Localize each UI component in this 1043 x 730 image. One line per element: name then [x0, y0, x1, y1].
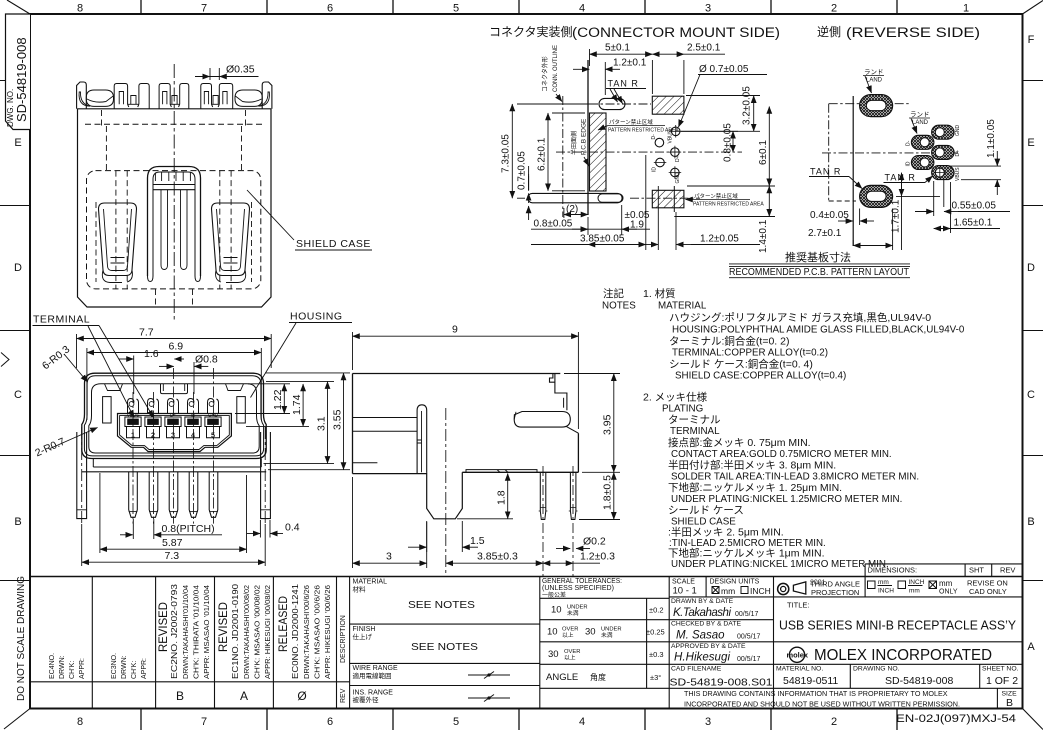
- dim 6±0.1: [687, 107, 775, 187]
- svg-text:6: 6: [327, 3, 333, 15]
- svg-text:(UNLESS SPECIFIED): (UNLESS SPECIFIED): [542, 585, 614, 592]
- dim 1.22 right: [235, 384, 290, 414]
- svg-text:3: 3: [171, 431, 175, 440]
- svg-text:CAD FILENAME: CAD FILENAME: [671, 666, 722, 673]
- svg-text:材料: 材料: [353, 585, 367, 594]
- svg-text:PLATING: PLATING: [662, 404, 703, 415]
- svg-text:PROJECTION: PROJECTION: [811, 588, 859, 597]
- right corner post: [262, 82, 272, 109]
- svg-text:ランド: ランド: [910, 111, 930, 119]
- svg-text:54819-0511: 54819-0511: [783, 675, 838, 687]
- connector mount side pattern group: [501, 43, 776, 254]
- svg-text:RECOMMENDED P.C.B. PATTERN LAY: RECOMMENDED P.C.B. PATTERN LAYOUT: [729, 267, 910, 278]
- dimensions / sht rev upper box: [865, 564, 1022, 597]
- dim Ø0.35: [195, 76, 259, 78]
- dim 0.4: [260, 520, 270, 538]
- bottom zone ticks: [141, 709, 897, 730]
- svg-text:6±0.1: 6±0.1: [758, 140, 769, 165]
- svg-text:INCORPORATED AND SHOULD NOT BE: INCORPORATED AND SHOULD NOT BE USED WITH…: [684, 700, 960, 709]
- svg-text:P.C.B EDGE: P.C.B EDGE: [581, 118, 588, 155]
- title block grid: [30, 564, 1023, 709]
- zone numbers top: [77, 3, 969, 15]
- svg-text:UNDER: UNDER: [601, 627, 622, 633]
- svg-text:mm: mm: [721, 586, 735, 596]
- svg-text:E: E: [1027, 137, 1034, 149]
- svg-text:±3°: ±3°: [650, 673, 661, 682]
- tolerance texts: [542, 578, 665, 683]
- svg-text:1.8: 1.8: [496, 490, 508, 505]
- svg-text:DRAWN BY & DATE: DRAWN BY & DATE: [671, 598, 734, 605]
- terminal 1 (VBUS): [125, 399, 141, 438]
- svg-text:1.2±0.3: 1.2±0.3: [580, 551, 615, 563]
- svg-text:ターミナル:銅合金(t=0. 2): ターミナル:銅合金(t=0. 2): [669, 335, 789, 348]
- hole labels: [651, 129, 681, 183]
- top zone ticks: [141, 0, 897, 14]
- svg-text:SEE NOTES: SEE NOTES: [411, 641, 478, 653]
- svg-text:CH’K:: CH’K:: [131, 661, 138, 679]
- svg-text:FINISH: FINISH: [353, 626, 376, 633]
- svg-text:00/5/17: 00/5/17: [735, 611, 758, 618]
- pcb edge vertical: [852, 96, 854, 246]
- svg-text:角度: 角度: [590, 672, 606, 682]
- svg-text:Ø 0.7±0.05: Ø 0.7±0.05: [699, 64, 749, 75]
- svg-text:5: 5: [211, 431, 215, 440]
- svg-text:GND: GND: [955, 125, 961, 137]
- dim 6.2±0.1: [548, 113, 585, 191]
- svg-text:1.2±0.05: 1.2±0.05: [700, 234, 739, 245]
- svg-text:F: F: [1028, 34, 1035, 46]
- tab pair 1: [114, 84, 149, 109]
- svg-text:1.65±0.1: 1.65±0.1: [954, 218, 993, 229]
- top shield land (crosshatch stadium): [860, 95, 893, 117]
- svg-text:EC3NO.: EC3NO.: [111, 653, 118, 679]
- svg-text:TERMINAL: TERMINAL: [670, 426, 720, 437]
- pin A: [540, 472, 546, 519]
- tolerance box: [668, 577, 670, 709]
- corner cut bottom-right: [1023, 709, 1043, 730]
- svg-text:30: 30: [548, 649, 559, 660]
- svg-text:4: 4: [579, 3, 585, 15]
- svg-text:Ø0.2: Ø0.2: [583, 536, 606, 548]
- svg-text:10: 10: [547, 627, 558, 638]
- svg-text:2001: 2001: [810, 580, 826, 587]
- svg-text:0.7±0.05: 0.7±0.05: [517, 151, 528, 190]
- svg-text:B: B: [176, 689, 184, 703]
- svg-text:REV: REV: [340, 688, 347, 703]
- dim 7.3: [82, 524, 266, 566]
- rev letter row line: [30, 681, 350, 683]
- svg-text:DRWN:TAKAHASHI’00/6/26: DRWN:TAKAHASHI’00/6/26: [304, 585, 311, 679]
- material/finish box: [539, 577, 541, 709]
- revision column verticals: [92, 577, 349, 709]
- svg-text:5±0.1: 5±0.1: [605, 43, 630, 54]
- terminal pins row: [129, 472, 218, 518]
- svg-text:1.22: 1.22: [272, 389, 284, 410]
- svg-text:(2): (2): [566, 204, 578, 215]
- svg-text:7.3: 7.3: [165, 550, 180, 562]
- svg-text:TAN R: TAN R: [810, 167, 841, 177]
- svg-text:シールド ケース: シールド ケース: [668, 505, 744, 517]
- D cavity tongue: [118, 414, 232, 452]
- body top edge: [78, 108, 272, 110]
- shield leg side profile (U channel): [427, 472, 463, 519]
- svg-text:TAN R: TAN R: [608, 79, 639, 89]
- flange bottom: [82, 459, 266, 472]
- svg-text:3.95: 3.95: [602, 414, 614, 435]
- latch crossbar: [153, 185, 195, 190]
- svg-text:7.7: 7.7: [139, 327, 154, 339]
- dim Ø0.2: [556, 548, 570, 550]
- pad VBUS: [932, 166, 955, 180]
- centerlines: [445, 408, 447, 577]
- drawn/checked/approved: [671, 598, 746, 673]
- svg-text:(REVERSE SIDE): (REVERSE SIDE): [846, 25, 980, 40]
- svg-text:1: 1: [963, 3, 969, 15]
- side slot right: [237, 397, 246, 423]
- pad D-: [911, 135, 934, 149]
- dim 1.4±0.1: [674, 186, 775, 217]
- revision columns rotated texts: [49, 653, 148, 679]
- centerline bottom land: [630, 197, 700, 199]
- terminal block top: [118, 414, 232, 437]
- svg-text:B: B: [1006, 697, 1013, 709]
- svg-text:±0.2: ±0.2: [649, 606, 664, 615]
- corner cut bottom-left: [4, 709, 30, 730]
- svg-text:3.2±0.05: 3.2±0.05: [742, 86, 753, 125]
- svg-text:DRWN:: DRWN:: [59, 655, 66, 679]
- svg-text:2.5±0.1: 2.5±0.1: [687, 43, 721, 54]
- solder pin 4: [189, 472, 198, 518]
- dim 0.7±0.05: [528, 166, 530, 220]
- svg-text:M. Sasao: M. Sasao: [676, 630, 725, 642]
- svg-text:H.Hikesugi: H.Hikesugi: [674, 652, 730, 664]
- dim 1.8±0.5: [579, 519, 620, 521]
- svg-text:2. メッキ仕様: 2. メッキ仕様: [643, 391, 708, 404]
- svg-text:6: 6: [327, 716, 333, 728]
- svg-text:MATERIAL: MATERIAL: [353, 579, 388, 586]
- dim 1.5: [427, 521, 463, 552]
- svg-text:APPR: HIKESUGI ’00/08/02: APPR: HIKESUGI ’00/08/02: [265, 585, 272, 679]
- zone letters right: [1027, 34, 1035, 653]
- svg-text:0.55±0.05: 0.55±0.05: [952, 201, 997, 212]
- latch inner slot: [161, 190, 187, 265]
- svg-text:REV: REV: [1000, 566, 1015, 575]
- shield legs: [77, 432, 271, 519]
- svg-text:DRWN:: DRWN:: [121, 655, 128, 679]
- svg-text:8: 8: [77, 3, 83, 15]
- dim 2.5±0.1: [652, 54, 725, 94]
- svg-text:5.87: 5.87: [162, 537, 183, 549]
- dim 3.85±0.05: [531, 155, 646, 250]
- svg-text:ターミナル: ターミナル: [668, 414, 721, 426]
- corner key right: [226, 384, 244, 391]
- svg-text:CONN. OUTLINE: CONN. OUTLINE: [553, 45, 559, 92]
- molex row: [787, 647, 993, 664]
- svg-text:UNDER PLATING:NICKEL 1.25MICRO: UNDER PLATING:NICKEL 1.25MICRO METER MIN…: [671, 494, 902, 505]
- svg-text:DRWN:TAKAHASHI’01/10/04: DRWN:TAKAHASHI’01/10/04: [183, 585, 190, 679]
- svg-text:A: A: [1027, 641, 1035, 653]
- dim 1.8 inner: [457, 518, 513, 520]
- dim 3 / 3.85 / 1.2: [352, 477, 354, 568]
- svg-text:MATERIAL NO.: MATERIAL NO.: [776, 666, 823, 673]
- hidden dashed line upper: [85, 123, 262, 125]
- svg-text:7: 7: [201, 716, 207, 728]
- shell outer: [82, 373, 266, 458]
- svg-text:1.5: 1.5: [470, 535, 485, 547]
- svg-text:TAN R: TAN R: [885, 173, 916, 183]
- svg-text:WIRE RANGE: WIRE RANGE: [353, 665, 398, 672]
- svg-text:molex: molex: [787, 652, 809, 659]
- pattern restricted label bottom: [693, 192, 764, 208]
- svg-text:1. 材質: 1. 材質: [643, 287, 676, 300]
- left fold lug: [86, 90, 113, 106]
- svg-text:B: B: [1027, 516, 1034, 528]
- svg-text:SHT: SHT: [969, 566, 984, 575]
- svg-text:D: D: [14, 262, 22, 274]
- svg-text:3: 3: [386, 551, 392, 563]
- svg-text:CH’K: MSASAO ’00/08/02: CH’K: MSASAO ’00/08/02: [255, 585, 262, 679]
- svg-text:00/5/17: 00/5/17: [737, 656, 760, 663]
- pattern restricted area left (hatched): [590, 113, 607, 191]
- top slot oval: [599, 98, 625, 109]
- svg-text:7: 7: [201, 3, 207, 15]
- dim 3.2±0.05: [681, 96, 760, 132]
- top view shield case group: [77, 64, 272, 322]
- svg-text:ID: ID: [652, 167, 658, 172]
- svg-text:D: D: [1027, 262, 1035, 274]
- terminal 5 (GND): [205, 399, 221, 438]
- svg-text:INCH: INCH: [878, 588, 894, 595]
- svg-text:OVER: OVER: [564, 649, 580, 655]
- svg-text:APPR:: APPR:: [141, 658, 148, 679]
- svg-text:INCH: INCH: [909, 579, 925, 586]
- svg-text:0.4±0.05: 0.4±0.05: [810, 210, 849, 221]
- svg-text:MOLEX INCORPORATED: MOLEX INCORPORATED: [814, 647, 992, 664]
- svg-text:DRAWING NO.: DRAWING NO.: [853, 666, 900, 673]
- svg-text:mm: mm: [878, 579, 889, 586]
- corner cut top-left: [7, 0, 30, 14]
- svg-text:以上: 以上: [562, 631, 574, 639]
- svg-text:K.Takahashi: K.Takahashi: [673, 607, 731, 619]
- svg-text:SHEET NO.: SHEET NO.: [982, 666, 1019, 673]
- zone numbers bottom: [77, 716, 837, 728]
- svg-text:D+: D+: [675, 155, 681, 162]
- top right tab and step: [550, 374, 567, 411]
- svg-text:1.1±0.05: 1.1±0.05: [986, 119, 997, 158]
- dim 0.8±0.05 right: [682, 131, 738, 152]
- svg-text:1.74: 1.74: [291, 394, 303, 415]
- terminal 2 (D-): [145, 399, 161, 438]
- conn outline dash-dot rect lines: [828, 104, 830, 201]
- svg-text:10: 10: [551, 605, 562, 616]
- dim 1.6: [133, 356, 135, 395]
- svg-text:(CONNECTOR MOUNT SIDE): (CONNECTOR MOUNT SIDE): [572, 25, 780, 40]
- svg-text:0.8(PITCH): 0.8(PITCH): [162, 523, 215, 535]
- dim Ø0.8: [193, 362, 195, 394]
- svg-text:1.4±0.1: 1.4±0.1: [758, 219, 769, 253]
- center dash-dot horizontal: [822, 152, 958, 154]
- svg-text:ANGLE: ANGLE: [546, 672, 578, 683]
- terminal numbers 1-5: [131, 431, 215, 440]
- svg-text:2: 2: [831, 716, 837, 728]
- centerlines front view: [82, 368, 266, 524]
- svg-text:REVISED: REVISED: [158, 602, 170, 652]
- side view dims: [353, 332, 621, 568]
- svg-text:4: 4: [579, 716, 585, 728]
- svg-text:LAND: LAND: [912, 120, 929, 126]
- svg-text:1.9: 1.9: [630, 220, 644, 231]
- solder lug (pill): [514, 412, 570, 428]
- svg-text:D-: D-: [906, 140, 912, 146]
- solder pin 5: [209, 472, 218, 518]
- svg-text:E: E: [14, 137, 21, 149]
- mating tongue lines: [353, 418, 418, 432]
- svg-text:PATTERN RESTRICTED AREA: PATTERN RESTRICTED AREA: [693, 202, 764, 208]
- svg-text:APPROVED BY & DATE: APPROVED BY & DATE: [671, 643, 746, 650]
- svg-text:5: 5: [453, 716, 459, 728]
- bottom edge right part: [462, 471, 578, 473]
- svg-text:1.8±0.5: 1.8±0.5: [602, 475, 614, 510]
- svg-text:SCALE: SCALE: [672, 579, 695, 586]
- left corner post: [77, 82, 87, 109]
- svg-text:9: 9: [452, 324, 458, 336]
- zone letters left: [14, 137, 22, 528]
- svg-text:THIS DRAWING CONTAINS INFORMAT: THIS DRAWING CONTAINS INFORMATION THAT I…: [684, 689, 948, 698]
- svg-text:INCH: INCH: [750, 586, 771, 596]
- svg-text:HOUSING:POLYPHTHAL AMIDE GLASS: HOUSING:POLYPHTHAL AMIDE GLASS FILLED,BL…: [672, 325, 965, 336]
- svg-text:RELEASED: RELEASED: [278, 596, 290, 652]
- third angle projection: [778, 582, 806, 595]
- svg-text:2: 2: [151, 431, 155, 440]
- pad GND: [932, 125, 955, 139]
- svg-text:±0.25: ±0.25: [646, 628, 665, 637]
- hole GND: [669, 166, 682, 179]
- svg-text:0.8±0.05: 0.8±0.05: [534, 219, 573, 230]
- terminal 4 (ID): [185, 399, 201, 438]
- svg-text:CH’K:: CH’K:: [69, 661, 76, 679]
- svg-text:APPR: MSASAO ’01/10/04: APPR: MSASAO ’01/10/04: [204, 585, 211, 679]
- svg-text:8: 8: [77, 716, 83, 728]
- svg-text:3: 3: [705, 3, 711, 15]
- scale/design units: [672, 579, 760, 597]
- svg-text:TITLE:: TITLE:: [787, 601, 810, 610]
- center line vertical: [173, 64, 175, 322]
- svg-text:A: A: [240, 689, 248, 703]
- svg-text:CHECKED BY & DATE: CHECKED BY & DATE: [671, 621, 741, 628]
- svg-text:GENERAL TOLERANCES:: GENERAL TOLERANCES:: [542, 578, 622, 585]
- svg-text:Ø: Ø: [297, 689, 306, 703]
- standoff lip: [466, 470, 537, 473]
- svg-text:00/5/17: 00/5/17: [737, 634, 760, 641]
- solder pin 2: [149, 472, 158, 518]
- svg-text:APPR: HIKESUGI ’00/6/26: APPR: HIKESUGI ’00/6/26: [325, 585, 332, 679]
- scale / design units: [705, 577, 707, 597]
- svg-text:LAND: LAND: [866, 78, 883, 84]
- centerline middle holes: [556, 151, 742, 153]
- left spring contact: [99, 203, 137, 276]
- right fold lug: [235, 90, 262, 106]
- svg-text:TERMINAL:COPPER ALLOY(t=0.2): TERMINAL:COPPER ALLOY(t=0.2): [672, 348, 828, 359]
- dim 0.8±0.05: [531, 205, 650, 235]
- svg-text:4: 4: [191, 431, 195, 440]
- shield case body outline: [78, 109, 272, 308]
- svg-text:半田付け部:半田メッキ 3. 8μm MIN.: 半田付け部:半田メッキ 3. 8μm MIN.: [668, 459, 836, 472]
- hole VBUS: [670, 125, 683, 138]
- terminal contacts row: [125, 399, 221, 440]
- svg-text:半田面側: 半田面側: [570, 131, 578, 155]
- svg-text:0.8±0.05: 0.8±0.05: [723, 123, 734, 162]
- corner key left: [105, 384, 123, 391]
- svg-text:一般公差: 一般公差: [542, 591, 566, 599]
- svg-text:VBUS: VBUS: [955, 167, 961, 181]
- svg-text:CONTACT AREA:GOLD 0.75MICRO ME: CONTACT AREA:GOLD 0.75MICRO METER MIN.: [671, 449, 892, 460]
- pad ID: [911, 156, 934, 170]
- dim 7.3±0.05: [512, 104, 597, 198]
- svg-text:±0.3: ±0.3: [649, 650, 664, 659]
- corner cut top-right: [1023, 1, 1043, 15]
- housing face: [89, 384, 259, 453]
- svg-text:DESIGN UNITS: DESIGN UNITS: [710, 579, 760, 586]
- svg-text:USB SERIES MINI-B RECEPTACLE A: USB SERIES MINI-B RECEPTACLE ASS’Y: [779, 619, 1017, 633]
- svg-text:3.55: 3.55: [331, 409, 343, 430]
- svg-text:DESCRIPTION: DESCRIPTION: [340, 615, 347, 663]
- svg-text:注記: 注記: [603, 287, 624, 300]
- svg-text:NOTES: NOTES: [602, 301, 636, 312]
- right zone ticks: [1023, 81, 1043, 581]
- side view group: [353, 374, 579, 578]
- dim 3.95: [564, 374, 620, 473]
- svg-text:ONLY: ONLY: [939, 589, 958, 596]
- svg-text:SEE NOTES: SEE NOTES: [408, 599, 475, 611]
- hole D-: [655, 138, 664, 147]
- svg-text:3.85±0.05: 3.85±0.05: [580, 234, 625, 245]
- svg-text:TERMINAL: TERMINAL: [33, 314, 90, 326]
- svg-text:ID: ID: [906, 161, 912, 166]
- svg-text:PATTERN RESTRICTED AREA: PATTERN RESTRICTED AREA: [608, 128, 679, 134]
- title block texts: [353, 579, 479, 705]
- svg-text:適用電線範囲: 適用電線範囲: [353, 671, 392, 680]
- svg-text:DRWN:TAKAHASHI’00/08/02: DRWN:TAKAHASHI’00/08/02: [244, 585, 251, 679]
- pad labels: [906, 125, 962, 182]
- svg-text:5: 5: [453, 3, 459, 15]
- left fold mark: [1, 353, 9, 367]
- solder pin 3: [169, 472, 178, 518]
- bottom shield land (crosshatch stadium): [860, 185, 893, 207]
- svg-text:6.9: 6.9: [169, 341, 184, 353]
- bottom slot oval cap: [598, 194, 623, 202]
- dim (2): [564, 208, 588, 218]
- shield leg left: [77, 432, 87, 519]
- svg-text:3.1: 3.1: [315, 416, 327, 431]
- svg-text:未満: 未満: [567, 609, 579, 617]
- dim 0.4±0.05: [838, 209, 874, 226]
- latch recess: [161, 384, 188, 394]
- side slot left: [103, 397, 112, 423]
- svg-text:1.7±0.1: 1.7±0.1: [891, 199, 902, 233]
- svg-text:30: 30: [585, 627, 596, 638]
- svg-text:C: C: [14, 389, 22, 401]
- dim 1.65±0.1: [934, 182, 1000, 233]
- svg-text:推奨基板寸法: 推奨基板寸法: [785, 250, 851, 264]
- body outline: [353, 374, 561, 474]
- right edge: [577, 433, 579, 472]
- svg-text::半田メッキ 2. 5μm MIN.: :半田メッキ 2. 5μm MIN.: [668, 526, 784, 539]
- notes text block: [602, 287, 965, 570]
- dim 0.55±0.05: [915, 179, 1010, 216]
- svg-text:UNDER: UNDER: [567, 605, 588, 611]
- tab pair 2: [159, 84, 189, 109]
- reverse side pattern group: [729, 68, 1010, 278]
